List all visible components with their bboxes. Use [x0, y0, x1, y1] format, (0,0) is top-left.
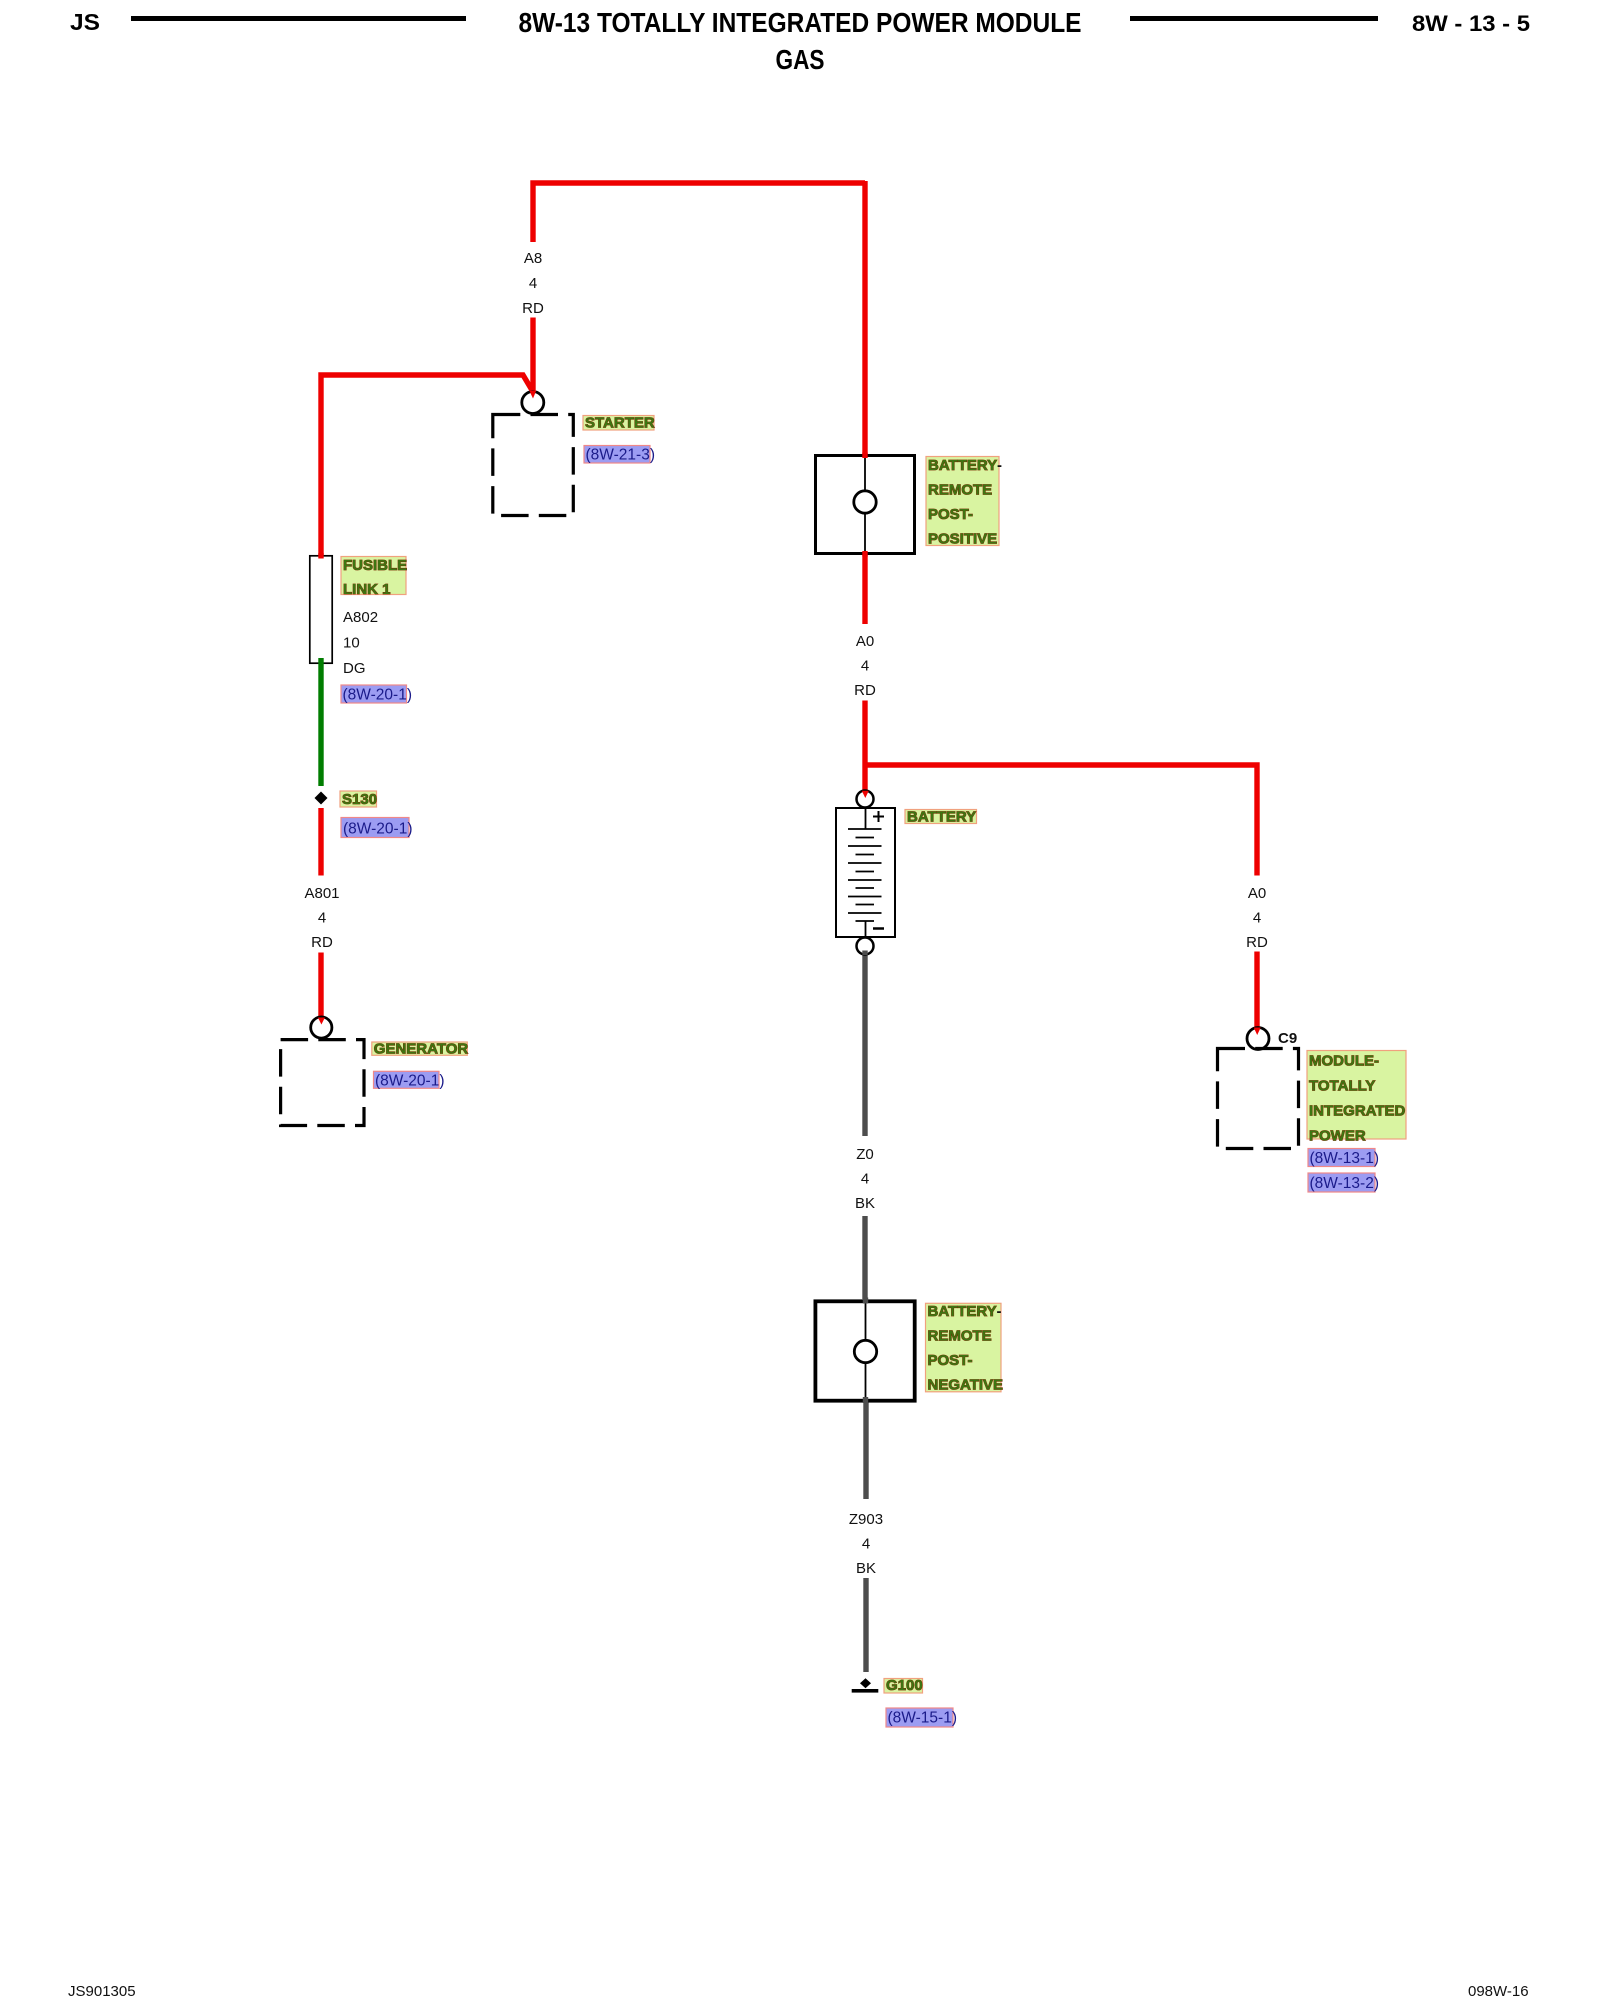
svg-text:RD: RD	[522, 300, 544, 317]
svg-text:POSITIVE: POSITIVE	[928, 531, 997, 548]
wire Z0 to remote post negative	[862, 1216, 867, 1299]
node Z0 labels	[855, 1146, 875, 1212]
generator connector circle	[311, 1017, 332, 1038]
node A8 labels	[522, 250, 544, 317]
svg-text:RD: RD	[1246, 934, 1268, 951]
svg-text:POST-: POST-	[928, 1352, 973, 1369]
battery remote post positive box	[816, 453, 915, 557]
svg-text:(8W-20-1): (8W-20-1)	[343, 687, 412, 704]
footer sheet code	[68, 1983, 136, 2000]
svg-text:STARTER: STARTER	[585, 415, 655, 432]
wire A802 red stub inside link	[318, 553, 323, 559]
header subtitle GAS	[776, 44, 825, 75]
svg-text:A0: A0	[856, 633, 874, 650]
battery remote post negative box	[815, 1298, 914, 1404]
label MODULE-TOTALLY INTEGRATED POWER	[1307, 1051, 1406, 1145]
svg-text:GENERATOR: GENERATOR	[374, 1040, 469, 1057]
svg-text:A8: A8	[524, 250, 542, 267]
pin label C9	[1278, 1030, 1297, 1047]
svg-text:JS901305: JS901305	[68, 1983, 136, 2000]
label BATTERY	[905, 809, 977, 826]
svg-text:POST-: POST-	[928, 506, 973, 523]
splice S130	[315, 792, 328, 805]
svg-text:4: 4	[861, 1171, 869, 1188]
wire A8 branch to fusible link	[321, 375, 533, 555]
fusible link 1 body	[310, 556, 332, 663]
svg-text:Z0: Z0	[856, 1146, 874, 1163]
label STARTER	[583, 415, 655, 432]
wire A0 stub to C9	[1254, 952, 1259, 1029]
svg-text:(8W-15-1): (8W-15-1)	[888, 1710, 957, 1727]
svg-text:RD: RD	[854, 682, 876, 699]
svg-text:4: 4	[529, 275, 537, 292]
svg-text:MODULE-: MODULE-	[1309, 1053, 1379, 1070]
TIPM dashed box	[1218, 1049, 1299, 1149]
wire A0 tip into battery positive	[862, 791, 869, 798]
svg-text:Z903: Z903	[849, 1511, 883, 1528]
header title	[519, 7, 1082, 38]
label GENERATOR	[372, 1040, 469, 1057]
svg-text:BATTERY: BATTERY	[928, 457, 997, 474]
battery negative terminal circle	[857, 938, 874, 955]
wire A8 top run	[533, 183, 865, 242]
svg-text:BK: BK	[856, 1560, 876, 1577]
label (8W-13-1)	[1308, 1149, 1379, 1168]
header page number	[1412, 11, 1530, 36]
svg-text:INTEGRATED: INTEGRATED	[1309, 1103, 1406, 1120]
TIPM connector C9 circle	[1247, 1028, 1269, 1050]
svg-text:A802: A802	[343, 609, 378, 626]
wire A0 below remote post	[862, 555, 867, 624]
node A0 labels right	[1246, 885, 1268, 951]
wire Z903 below remote post	[863, 1401, 868, 1499]
label FUSIBLE LINK 1	[341, 557, 407, 599]
svg-text:8W - 13 - 5: 8W - 13 - 5	[1412, 11, 1530, 36]
label (8W-20-1) under S130	[341, 818, 412, 838]
label (8W-20-1) under DG	[341, 685, 412, 704]
svg-text:4: 4	[861, 658, 869, 675]
svg-text:REMOTE: REMOTE	[928, 482, 992, 499]
svg-text:(8W-20-1): (8W-20-1)	[343, 821, 412, 838]
wire Z0 tip from battery negative	[862, 951, 867, 956]
svg-text:LINK 1: LINK 1	[343, 581, 391, 598]
svg-text:4: 4	[862, 1536, 870, 1553]
svg-text:(8W-13-2): (8W-13-2)	[1310, 1175, 1379, 1192]
svg-text:4: 4	[318, 910, 326, 927]
svg-text:G100: G100	[886, 1677, 923, 1694]
wire Z0 battery to labels	[862, 954, 867, 1136]
svg-text:BK: BK	[855, 1195, 875, 1212]
battery positive terminal circle	[857, 791, 874, 808]
svg-text:POWER: POWER	[1309, 1128, 1366, 1145]
wire A0 to battery positive	[862, 701, 867, 792]
svg-text:S130: S130	[342, 791, 377, 808]
svg-text:(8W-21-3): (8W-21-3)	[586, 447, 655, 464]
label (8W-21-3)	[584, 446, 655, 464]
generator dashed box	[281, 1040, 364, 1126]
svg-text:BATTERY: BATTERY	[907, 809, 976, 826]
wire A802 dark green to splice	[318, 658, 323, 786]
svg-text:TOTALLY: TOTALLY	[1309, 1078, 1375, 1095]
node A0 labels mid	[854, 633, 876, 699]
svg-text:10: 10	[343, 635, 360, 652]
wire A8 tip into starter connector	[529, 391, 536, 399]
label G100	[884, 1677, 923, 1694]
svg-text:FUSIBLE: FUSIBLE	[343, 557, 407, 574]
header label JS	[70, 9, 100, 35]
svg-text:4: 4	[1253, 910, 1261, 927]
value label A802 10 DG	[343, 609, 378, 677]
svg-text:(8W-20-1): (8W-20-1)	[375, 1072, 444, 1089]
svg-text:DG: DG	[343, 660, 366, 677]
label S130	[340, 791, 377, 808]
wire A801 tip into generator connector	[318, 1018, 325, 1025]
svg-text:NEGATIVE: NEGATIVE	[928, 1377, 1004, 1394]
svg-text:GAS: GAS	[776, 44, 825, 75]
svg-text:-: -	[997, 1303, 1002, 1320]
footer drawing number	[1468, 1983, 1529, 2000]
svg-text:C9: C9	[1278, 1030, 1297, 1047]
starter dashed box	[493, 415, 574, 516]
wire A8 stub to starter	[530, 318, 535, 393]
ground G100 symbol	[852, 1678, 879, 1692]
label (8W-15-1)	[886, 1708, 957, 1727]
svg-text:-: -	[997, 457, 1002, 474]
wire A801 stub to generator	[318, 953, 323, 1018]
node Z903 labels	[849, 1511, 883, 1577]
wire A0 tip into C9 connector	[1254, 1028, 1261, 1036]
header rule left	[131, 16, 466, 21]
svg-text:8W-13 TOTALLY INTEGRATED POWER: 8W-13 TOTALLY INTEGRATED POWER MODULE	[519, 7, 1082, 38]
wire A801 below splice	[318, 808, 323, 876]
label BATTERY-REMOTE POST-NEGATIVE	[926, 1303, 1004, 1394]
svg-text:BATTERY: BATTERY	[928, 1303, 997, 1320]
svg-text:REMOTE: REMOTE	[928, 1328, 992, 1345]
node A801 labels	[304, 885, 339, 951]
svg-text:098W-16: 098W-16	[1468, 1983, 1529, 2000]
svg-text:JS: JS	[70, 9, 100, 35]
header rule right	[1130, 16, 1378, 21]
wire Z903 to ground	[863, 1578, 868, 1672]
label (8W-13-2)	[1308, 1173, 1379, 1192]
svg-text:A0: A0	[1248, 885, 1266, 902]
label BATTERY-REMOTE POST-POSITIVE	[926, 457, 1002, 548]
battery symbol	[836, 807, 895, 938]
wire A0 branch to TIPM	[863, 765, 1258, 876]
wire A0 vertical to remote post positive	[862, 181, 867, 454]
svg-text:(8W-13-1): (8W-13-1)	[1310, 1150, 1379, 1167]
starter connector circle	[522, 392, 544, 414]
label (8W-20-1) under GENERATOR	[374, 1071, 445, 1089]
svg-text:A801: A801	[304, 885, 339, 902]
svg-text:RD: RD	[311, 934, 333, 951]
